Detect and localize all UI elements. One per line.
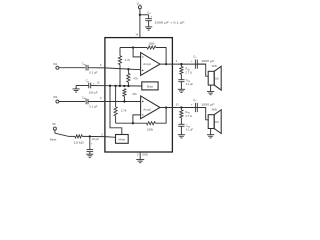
node rail 2.7k-1 tap bbox=[119, 85, 121, 87]
node mute RC junction bbox=[89, 135, 91, 137]
resistor 150k (Amp2 feedback) bbox=[147, 122, 156, 125]
svg-text:0.1 µF: 0.1 µF bbox=[89, 71, 97, 75]
node input1 / 47k junction bbox=[127, 68, 129, 70]
wire 47k1 bottom to rail bbox=[127, 82, 129, 86]
pin 9 label bbox=[100, 96, 102, 100]
capacitor CS plus sign bbox=[151, 15, 153, 19]
capacitor CS (supply bypass) bbox=[145, 15, 152, 27]
node rail mute tap bbox=[109, 85, 111, 87]
resistor 47k (Amp2 bias) bbox=[123, 89, 126, 97]
capacitor CB (100 µF bypass) bbox=[89, 83, 91, 89]
resistor RSN1 labels bbox=[186, 68, 192, 75]
pin 2 label bbox=[176, 59, 178, 63]
svg-text:0.1 µF: 0.1 µF bbox=[186, 82, 194, 86]
wire ground to bypass cap bbox=[76, 85, 89, 87]
svg-text:W/B: W/B bbox=[212, 108, 217, 112]
capacitor CC1 plus sign bbox=[191, 59, 193, 63]
op-amp Amp2 inverting input mark bbox=[142, 114, 144, 116]
wire 2.7k top to feedback node bbox=[119, 48, 121, 56]
node snubber2 tap bbox=[180, 106, 182, 108]
capacitor CSN2 (0.1 µF snubber) bbox=[178, 118, 184, 135]
svg-text:1000 µF + 0.1 µF: 1000 µF + 0.1 µF bbox=[154, 20, 184, 24]
pin 5 GND label bbox=[137, 153, 148, 157]
capacitor CC2 (1000 µF output coupling) bbox=[195, 103, 197, 112]
pin 14 label bbox=[135, 33, 138, 37]
svg-text:IN1: IN1 bbox=[53, 62, 58, 66]
capacitor CC1 value bbox=[201, 59, 214, 63]
wire input1 into Amp1 plus input bbox=[88, 68, 141, 70]
wire 2.7k2 bottom to feedback2 bbox=[115, 116, 117, 123]
speaker 2 (8 ohm) bbox=[208, 110, 221, 134]
svg-text:8Ω: 8Ω bbox=[215, 76, 218, 80]
svg-text:2.7k: 2.7k bbox=[121, 108, 127, 112]
resistor 10k label bbox=[74, 140, 85, 144]
ground (supply bypass) bbox=[145, 27, 152, 30]
wire feedback2 left segment bbox=[116, 122, 147, 124]
capacitor C-IN2 (0.1 µF input coupling) bbox=[86, 99, 88, 105]
svg-text:Bias: Bias bbox=[147, 84, 153, 88]
node Amp1 output feedback junction bbox=[165, 63, 167, 65]
node Amp2 output feedback junction bbox=[165, 106, 167, 108]
resistor 2.7k (Amp1) bbox=[118, 56, 121, 65]
capacitor CC2 label bbox=[193, 98, 197, 103]
wire Amp1 inverting input bbox=[133, 48, 141, 57]
svg-text:2.7k: 2.7k bbox=[125, 58, 131, 62]
capacitor CSN2 labels bbox=[186, 125, 194, 132]
wire 2.7k bottom to bias rail bbox=[119, 65, 121, 86]
ground (speaker 1) bbox=[207, 92, 214, 95]
capacitor CC1 label bbox=[193, 54, 197, 59]
svg-text:1000 µF: 1000 µF bbox=[201, 103, 214, 107]
resistor 47k (Amp1 bias) bbox=[127, 73, 130, 82]
wire switch to resistor bbox=[69, 135, 75, 137]
resistor 47k (Amp1 bias) label bbox=[133, 77, 138, 81]
capacitor C-IN1 label bbox=[82, 62, 86, 67]
svg-text:47k: 47k bbox=[133, 77, 138, 81]
svg-text:Mute: Mute bbox=[50, 137, 57, 141]
wire Amp1 output bbox=[160, 63, 206, 65]
resistor RSN2 labels bbox=[186, 111, 192, 118]
resistor 150k (Amp2 feedback) label bbox=[147, 128, 154, 132]
resistor 47k (Amp2 bias) label bbox=[132, 92, 137, 96]
capacitor CB label bbox=[86, 79, 90, 84]
capacitor CS value label bbox=[154, 20, 184, 24]
speaker 1 top label bbox=[212, 64, 217, 68]
speaker 1 (8 ohm) bbox=[208, 66, 221, 90]
IC package outline U1 bbox=[105, 38, 172, 152]
svg-text:0.1 µF: 0.1 µF bbox=[89, 105, 97, 109]
resistor 150k (Amp1 feedback) bbox=[147, 46, 156, 49]
node input2 / 47k junction bbox=[123, 100, 125, 102]
terminal VCC bbox=[138, 6, 141, 9]
resistor RSN2 (2.7 ohm snubber) bbox=[180, 108, 183, 118]
wire Amp2 inverting input bbox=[133, 115, 141, 123]
wire resistor to mute pin bbox=[82, 135, 105, 137]
capacitor mute plus sign bbox=[91, 142, 93, 145]
node rail 47k-2 tap bbox=[123, 85, 125, 87]
capacitor C-IN1 value bbox=[89, 71, 97, 75]
op-amp Amp1 bbox=[141, 53, 160, 76]
op-amp Amp1 non-inverting input mark bbox=[142, 69, 144, 71]
wire 5V stub bbox=[54, 130, 56, 133]
capacitor CSN1 (0.1 µF snubber) bbox=[178, 74, 184, 89]
svg-text:47k: 47k bbox=[132, 92, 137, 96]
wire GND pin bbox=[139, 152, 141, 159]
node feedback2 to inverting input bbox=[132, 122, 134, 124]
svg-text:Amp2: Amp2 bbox=[143, 107, 151, 111]
svg-text:GND: GND bbox=[142, 153, 148, 157]
svg-text:2.7 Ω: 2.7 Ω bbox=[186, 114, 192, 118]
ground (snubber 1) bbox=[178, 89, 185, 92]
svg-text:100 µF: 100 µF bbox=[89, 91, 98, 95]
node feedback1 to inverting input bbox=[132, 46, 134, 48]
svg-text:0.1 µF: 0.1 µF bbox=[186, 128, 194, 132]
wire feedback1 right segment bbox=[156, 48, 166, 65]
terminal 5V bbox=[53, 127, 56, 130]
svg-text:2.7 Ω: 2.7 Ω bbox=[186, 71, 192, 75]
svg-text:IN2: IN2 bbox=[53, 95, 58, 99]
wire input2 into Amp2 plus input bbox=[88, 101, 141, 103]
svg-text:8Ω: 8Ω bbox=[215, 120, 218, 124]
op-amp Amp1 inverting input mark bbox=[142, 56, 144, 58]
capacitor 10 µF label bbox=[92, 137, 100, 141]
wire 47k1 top bbox=[127, 69, 129, 73]
wire output1 to speaker bbox=[197, 64, 208, 76]
pin 1 label bbox=[97, 81, 100, 85]
svg-text:10 µF: 10 µF bbox=[92, 137, 100, 141]
resistor 2.7k (Amp2) label bbox=[121, 108, 127, 112]
capacitor C-IN1 (0.1 µF input coupling) bbox=[86, 65, 88, 71]
svg-text:Mute: Mute bbox=[118, 138, 125, 142]
speaker 2 impedance label bbox=[215, 120, 218, 124]
mute supply label 5V bbox=[52, 122, 56, 126]
ground (bypass cap) bbox=[73, 86, 80, 93]
capacitor C-IN2 value bbox=[89, 105, 97, 109]
wire VCC vertical into IC pin 14 bbox=[139, 9, 141, 38]
capacitor CC2 plus sign bbox=[191, 103, 193, 107]
ground (mute cap) bbox=[86, 154, 93, 157]
svg-text:150k: 150k bbox=[147, 128, 154, 132]
resistor 2.7k (Amp1) label bbox=[125, 58, 131, 62]
mute label bbox=[50, 137, 57, 141]
resistor 150k (Amp1 feedback) label bbox=[148, 42, 155, 46]
wire input1 to coupling cap bbox=[59, 67, 85, 69]
capacitor CC2 value bbox=[201, 103, 214, 107]
ground (speaker 2) bbox=[207, 135, 214, 138]
capacitor CB value bbox=[89, 91, 98, 95]
capacitor CSN1 labels bbox=[186, 79, 194, 86]
pin 13 label bbox=[176, 102, 179, 106]
wire feedback1 left segment bbox=[120, 47, 147, 49]
ground (snubber 2) bbox=[178, 135, 185, 138]
wire Amp2 output bbox=[160, 107, 206, 109]
switch S1 (mute) bbox=[55, 133, 69, 136]
capacitor CC1 (1000 µF output coupling) bbox=[195, 60, 197, 69]
wire output2 to speaker bbox=[197, 108, 208, 120]
svg-text:10 kΩ: 10 kΩ bbox=[74, 140, 85, 144]
terminal input 1 bbox=[56, 66, 59, 69]
node rail 2.7k-2 tap bbox=[114, 85, 116, 87]
terminal input 2 bbox=[56, 100, 59, 103]
capacitor CS label bbox=[147, 10, 151, 15]
svg-text:W/B: W/B bbox=[212, 64, 217, 68]
capacitor 10 µF (mute) bbox=[87, 136, 94, 154]
ground (IC) bbox=[136, 160, 144, 163]
speaker 1 impedance label bbox=[215, 76, 218, 80]
op-amp Amp2 bbox=[141, 96, 160, 119]
input 1 label bbox=[53, 62, 58, 66]
wire bypass into IC bias rail bbox=[91, 85, 142, 88]
svg-text:150k: 150k bbox=[148, 42, 155, 46]
resistor RSN1 (2.7 ohm snubber) bbox=[180, 64, 183, 74]
svg-text:5V: 5V bbox=[52, 122, 56, 126]
node snubber1 tap bbox=[180, 63, 182, 65]
resistor 10k (mute) bbox=[75, 135, 82, 138]
pin 3 label (mute) bbox=[101, 133, 103, 137]
svg-text:Amp1: Amp1 bbox=[143, 62, 151, 66]
bias block bbox=[142, 82, 158, 90]
wire speaker2 to ground bbox=[210, 129, 212, 135]
input 2 label bbox=[53, 95, 58, 99]
pin 6 label bbox=[100, 63, 102, 67]
wire speaker1 to ground bbox=[210, 85, 212, 91]
capacitor CB plus sign bbox=[93, 82, 95, 85]
wire mute pin into block bbox=[105, 136, 116, 139]
mute block bbox=[116, 135, 129, 144]
node rail 47k-1 tap bbox=[127, 85, 129, 87]
supply voltage label VCC bbox=[137, 2, 143, 7]
svg-text:1000 µF: 1000 µF bbox=[201, 59, 214, 63]
wire input2 to coupling cap bbox=[59, 101, 85, 103]
node supply junction bbox=[139, 14, 141, 16]
op-amp Amp2 non-inverting input mark bbox=[142, 101, 144, 103]
resistor 2.7k (Amp2) bbox=[114, 107, 117, 116]
wire 2.7k2 top to rail bbox=[115, 86, 117, 107]
wire rail to mute block bbox=[110, 86, 122, 135]
wire 47k2 bottom to input2 bbox=[123, 96, 125, 101]
wire feedback2 right segment bbox=[155, 108, 166, 124]
capacitor C-IN2 label bbox=[82, 95, 86, 100]
speaker 2 top label bbox=[212, 108, 217, 112]
wire to supply bypass cap bbox=[140, 14, 149, 16]
